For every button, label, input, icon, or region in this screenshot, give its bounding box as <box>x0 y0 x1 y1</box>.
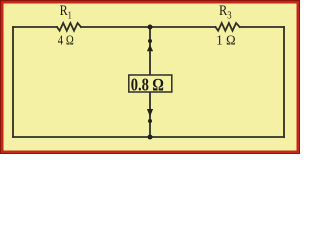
current arrow down <box>147 109 153 117</box>
node junction dot top <box>148 25 153 30</box>
svg-text:0.8 Ω: 0.8 Ω <box>131 74 164 94</box>
resistor box 0.8 ohm <box>129 75 172 92</box>
wire middle branch lower <box>149 92 151 137</box>
wire right vertical <box>283 27 285 137</box>
resistor R1 zigzag <box>57 23 81 31</box>
wire top-left segment <box>13 26 57 28</box>
wire: circuit loop (left, bottom, right, top segments with gaps for resistors) <box>13 23 284 137</box>
wire left vertical <box>12 27 14 137</box>
svg-text:1 Ω: 1 Ω <box>216 33 236 48</box>
resistor R3 zigzag <box>216 23 240 31</box>
wire top-middle segment <box>81 26 216 28</box>
node terminal dot lower <box>148 119 152 123</box>
wire bottom <box>13 136 284 138</box>
svg-text:4 Ω: 4 Ω <box>58 33 74 48</box>
wire top-right segment <box>240 26 284 28</box>
node terminal dot upper <box>148 39 152 43</box>
red frame <box>1 1 300 154</box>
wire middle branch upper <box>149 27 151 75</box>
current arrow up <box>147 45 153 52</box>
node junction dot bottom <box>148 135 153 140</box>
